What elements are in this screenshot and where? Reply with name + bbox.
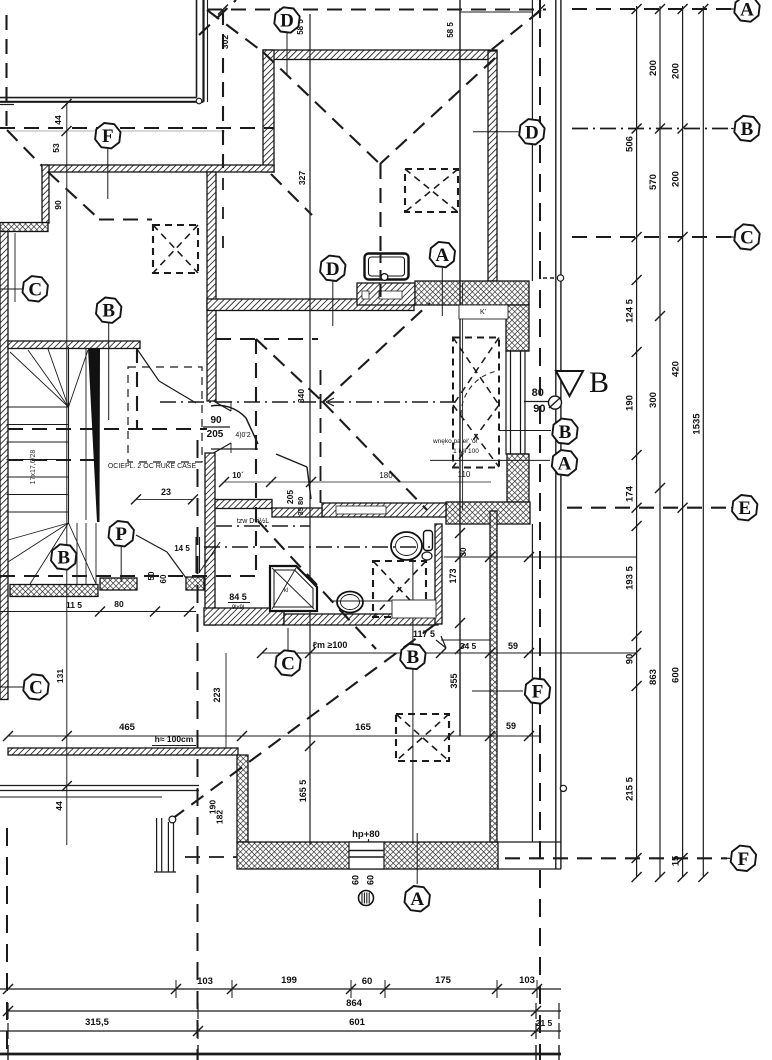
bottom window line 2	[349, 856, 384, 858]
svg-text:302: 302	[220, 35, 230, 49]
roof hip central nw	[256, 339, 323, 402]
roof diag top corner	[199, 0, 236, 35]
label F room	[525, 678, 550, 703]
svg-text:B: B	[102, 301, 115, 322]
roof hip bottom long	[172, 620, 441, 819]
svg-text:F: F	[532, 681, 544, 702]
property line a	[555, 0, 557, 869]
door bathroom frame	[195, 537, 197, 573]
door jamb splay top	[214, 401, 232, 411]
grid row F left stub	[185, 856, 237, 858]
window right sill bottom	[506, 453, 529, 455]
wall corner crosshatch	[0, 223, 48, 232]
svg-text:215 5: 215 5	[625, 776, 636, 800]
svg-text:35 80: 35 80	[296, 497, 305, 516]
railing post circle	[169, 816, 176, 823]
door bathroom leaf	[200, 542, 221, 572]
grid label F right	[731, 846, 756, 871]
wall crosshatch right upper	[506, 305, 529, 351]
svg-text:600: 600	[671, 667, 682, 683]
leader F room	[472, 690, 523, 692]
leader C bath	[287, 628, 289, 650]
bottom window opening	[349, 842, 384, 869]
svg-text:180: 180	[379, 471, 393, 480]
door jamb splay bottom	[214, 443, 232, 453]
roof hip top-left	[7, 130, 42, 166]
roof ridge over sink	[380, 253, 382, 297]
railing line 1	[0, 785, 199, 787]
chimney bathroom	[373, 561, 426, 617]
roof eave left vertical	[5, 15, 7, 131]
svg-text:A: A	[435, 245, 449, 266]
terrace corner circle	[196, 98, 202, 104]
svg-text:1 łyłł 100: 1 łyłł 100	[453, 448, 479, 455]
svg-text:59: 59	[506, 721, 516, 731]
svg-text:Kʹ: Kʹ	[480, 308, 486, 316]
tick x310 y746	[305, 741, 315, 751]
grid vertical x540	[539, 0, 541, 1060]
tick d1 b	[535, 5, 545, 15]
dim line y557	[444, 556, 636, 558]
wall sink section	[357, 283, 415, 305]
wall right narrow crosshatch	[490, 511, 497, 842]
svg-text:90: 90	[210, 415, 222, 426]
svg-text:506: 506	[625, 136, 636, 152]
svg-text:ℓm ≥100: ℓm ≥100	[313, 640, 348, 650]
reference line x460	[459, 0, 461, 736]
wall crosshatch right lower	[507, 454, 529, 502]
label C left upper	[23, 276, 48, 301]
corridor jamb	[276, 454, 307, 467]
svg-text:B: B	[559, 422, 572, 443]
railing line 2	[0, 790, 199, 792]
svg-text:44: 44	[53, 115, 63, 125]
svg-text:4)0ʹ2: 4)0ʹ2	[235, 431, 250, 439]
svg-text:A: A	[558, 453, 572, 474]
svg-text:D: D	[525, 122, 539, 143]
svg-text:182: 182	[214, 810, 224, 824]
roof eave y429	[8, 428, 207, 430]
wall terrace band	[8, 748, 238, 755]
label B bath	[400, 644, 425, 669]
sink wall notch 2	[379, 291, 402, 299]
svg-text:315,5: 315,5	[85, 1017, 109, 1028]
svg-text:601: 601	[349, 1017, 366, 1028]
svg-text:1535: 1535	[691, 413, 702, 435]
wall crosshatch top right	[415, 281, 529, 305]
label F left	[95, 123, 120, 148]
grid label A right	[734, 0, 759, 22]
roof hip central ne	[323, 303, 430, 402]
svg-text:C: C	[281, 653, 295, 674]
reference line x66	[66, 104, 68, 845]
svg-text:B: B	[741, 119, 754, 140]
chimney bottom room	[396, 714, 449, 761]
label C left lower	[23, 674, 48, 699]
svg-text:B: B	[57, 547, 70, 568]
svg-text:200: 200	[648, 60, 659, 76]
line beside terrace	[207, 0, 209, 102]
svg-text:58 5: 58 5	[446, 22, 455, 38]
dimension line V4	[702, 6, 704, 877]
leader D right	[473, 131, 519, 133]
svg-text:B: B	[407, 647, 420, 668]
svg-text:hp+80: hp+80	[352, 829, 380, 840]
roof hip from wall corner	[271, 174, 312, 215]
svg-text:200: 200	[671, 171, 682, 187]
roof hip bathroom	[258, 521, 376, 649]
svg-text:14 5: 14 5	[174, 544, 190, 553]
svg-text:wnęko pa ełʹ ʹoł: wnęko pa ełʹ ʹoł	[432, 437, 478, 445]
kitchen sink	[365, 254, 409, 280]
inner face line left	[14, 233, 16, 302]
stair edge line 2	[85, 348, 87, 520]
svg-text:kl: kl	[284, 588, 288, 594]
svg-text:199: 199	[281, 975, 297, 986]
door arc right room	[461, 371, 497, 415]
svg-text:175: 175	[435, 975, 452, 986]
svg-text:59: 59	[508, 641, 518, 651]
wall stair top	[8, 341, 140, 349]
bottom chain line 2	[8, 1010, 561, 1012]
svg-text:C: C	[28, 279, 42, 300]
svg-text:F: F	[738, 849, 750, 870]
roof eave top	[207, 8, 546, 10]
svg-text:84 5: 84 5	[229, 592, 247, 602]
svg-text:B: B	[589, 366, 609, 399]
chimney upper room	[405, 169, 458, 212]
duct shaft right room	[453, 338, 499, 468]
svg-text:A: A	[740, 0, 754, 20]
window right frame b	[521, 351, 526, 454]
top connector line	[460, 11, 532, 13]
grid label B right	[734, 116, 759, 141]
roof hip upper room right	[380, 58, 495, 164]
roof hip top d7	[490, 10, 541, 51]
door swing arc 90-205	[211, 405, 246, 418]
dim line y653	[262, 652, 636, 654]
svg-text:131: 131	[55, 669, 65, 683]
dim stub y640	[441, 639, 490, 641]
terrace outer stub	[0, 104, 14, 106]
roof dash to chimney	[99, 218, 152, 220]
railing bottom	[154, 871, 176, 873]
grid label C right	[734, 224, 759, 249]
svg-text:465: 465	[119, 722, 136, 733]
reference line x310	[309, 14, 311, 845]
label B right wall	[552, 419, 577, 444]
dim line y482	[224, 481, 491, 483]
property line b	[560, 0, 562, 869]
bottom right edge line top	[497, 841, 561, 843]
wall bathroom left	[205, 453, 215, 625]
tick x460 y623	[455, 618, 465, 628]
chimney left room	[153, 225, 198, 273]
svg-text:60: 60	[362, 976, 373, 987]
grid vertical x7 lower	[6, 828, 8, 1060]
bath niche	[392, 600, 436, 618]
label D top	[274, 7, 299, 32]
grid row A	[572, 8, 731, 10]
shower tray	[270, 566, 317, 611]
tick d1 a	[218, 5, 228, 15]
svg-text:300: 300	[648, 392, 659, 408]
dim line 23	[136, 498, 193, 500]
svg-text:C: C	[740, 227, 754, 248]
svg-text:17x17,6/28: 17x17,6/28	[30, 450, 37, 485]
wall left vertical	[42, 165, 49, 223]
line 80-90	[524, 401, 552, 403]
tick x67 y736	[62, 731, 72, 741]
grid vertical x197	[197, 440, 199, 1060]
reference line x226	[225, 653, 227, 748]
svg-text:F: F	[102, 126, 114, 147]
stair cut wedge	[88, 348, 100, 522]
small circle right	[560, 785, 566, 791]
roof ridge upper room	[379, 164, 381, 297]
bathroom top wall notch	[336, 506, 386, 514]
svg-text:124 5: 124 5	[625, 298, 636, 322]
roof eave left horizontal	[0, 127, 274, 129]
svg-text:60: 60	[351, 875, 361, 885]
grid row F	[505, 857, 727, 859]
svg-text:205: 205	[285, 490, 295, 504]
tick x66 a	[62, 126, 72, 136]
bottom chain line 1	[0, 988, 561, 990]
svg-text:355: 355	[449, 673, 459, 688]
svg-text:190: 190	[625, 395, 636, 411]
svg-text:21 5: 21 5	[536, 1018, 553, 1028]
step rect K	[459, 305, 508, 319]
reference line x462	[462, 283, 464, 510]
railing line 3	[0, 796, 162, 798]
roof eave vertical x137	[136, 348, 138, 429]
wall upper room right	[488, 51, 497, 281]
svg-text:11 5: 11 5	[66, 600, 82, 610]
svg-text:80: 80	[532, 387, 544, 399]
leader B section	[499, 430, 551, 432]
label B left upper	[96, 298, 121, 323]
dimension line V2	[659, 6, 661, 877]
bottom right edge line bottom	[497, 868, 561, 870]
roof ridge central south	[320, 370, 322, 503]
wall upper room left	[263, 50, 274, 172]
svg-text:864: 864	[346, 998, 363, 1009]
leader A mid	[441, 268, 443, 316]
svg-text:A: A	[410, 889, 424, 910]
svg-text:23: 23	[161, 487, 171, 497]
label C bath	[275, 650, 300, 675]
wall left horizontal	[42, 165, 274, 172]
washbasin	[337, 592, 363, 613]
roof hip upper room left	[263, 52, 380, 164]
roof ridge central dashdot	[160, 401, 455, 403]
leader A bottom	[416, 833, 418, 884]
stair opening dashed rect	[128, 367, 202, 462]
wall stair bottom crosshatch 1	[10, 585, 98, 597]
section triangle B	[556, 371, 583, 396]
label A bottom	[405, 886, 430, 911]
dimension line V1	[636, 6, 638, 877]
leader P	[120, 547, 122, 582]
label D mid	[320, 256, 345, 281]
svg-text:60: 60	[159, 574, 168, 583]
svg-text:h≈ 100cm: h≈ 100cm	[155, 734, 194, 744]
window right sill top	[506, 350, 529, 352]
svg-text:103: 103	[519, 975, 535, 986]
marker dash-circle right	[543, 277, 556, 279]
svg-text:110: 110	[458, 470, 471, 479]
svg-text:174: 174	[625, 485, 636, 502]
svg-text:205: 205	[207, 429, 224, 440]
wall crosshatch bottom band right room	[446, 502, 530, 524]
svg-text:9lx9l: 9lx9l	[232, 605, 244, 611]
marker circle 11	[359, 891, 374, 906]
svg-text:tzw Dvi½L: tzw Dvi½L	[237, 517, 269, 525]
leader A section	[430, 459, 550, 461]
svg-text:50: 50	[147, 571, 156, 580]
stair edge line	[68, 347, 70, 523]
dimension line V3	[682, 6, 684, 877]
label P	[109, 521, 134, 546]
leader B bath	[412, 669, 414, 843]
svg-text:E: E	[738, 498, 751, 519]
right face line upper	[531, 0, 533, 281]
wall bathroom bottom left	[204, 608, 284, 625]
tick x460 y648	[455, 644, 465, 654]
svg-text:340: 340	[296, 389, 306, 403]
roof eave y460	[8, 459, 98, 461]
svg-text:420: 420	[671, 361, 682, 377]
svg-text:200: 200	[671, 63, 682, 79]
toilet axis	[204, 546, 430, 548]
right face line lower	[531, 524, 533, 842]
label D right	[519, 119, 544, 144]
svg-text:173: 173	[448, 568, 458, 583]
svg-text:D: D	[280, 10, 294, 31]
svg-text:D: D	[326, 259, 340, 280]
terrace bottom outer line	[0, 101, 204, 103]
roof hip top d6	[207, 10, 263, 52]
svg-text:80: 80	[114, 599, 124, 609]
svg-text:90: 90	[533, 403, 545, 415]
grey line through F	[10, 130, 225, 132]
wall stair bottom crosshatch 3	[186, 577, 204, 590]
roof eave vertical x223	[222, 10, 224, 168]
grid row E	[567, 507, 731, 509]
terrace right inner line	[196, 0, 198, 98]
roof hip inner left	[48, 172, 99, 219]
svg-text:10´: 10´	[232, 471, 244, 480]
tick x66 b	[62, 99, 72, 109]
wall bathroom top-left A	[210, 500, 272, 509]
tick x460 y533	[455, 528, 465, 538]
tick x67 y786	[62, 781, 72, 791]
leader C left upper	[0, 288, 22, 290]
bottom window line 1	[349, 850, 384, 852]
wall bathroom top-left B	[272, 508, 322, 517]
svg-text:165: 165	[355, 722, 372, 733]
leader D top	[286, 33, 288, 76]
svg-text:223: 223	[212, 687, 222, 702]
svg-text:30: 30	[459, 547, 468, 556]
terrace right outer line	[202, 0, 204, 102]
wall mid horizontal band	[207, 299, 414, 311]
wall bottom band crosshatch	[237, 842, 498, 869]
sink wall notch 1	[362, 291, 369, 299]
svg-text:570: 570	[648, 174, 659, 190]
door leaf P	[136, 535, 167, 552]
leader D mid	[332, 281, 334, 326]
leader B left upper	[108, 323, 110, 420]
label B stairs	[51, 544, 76, 569]
svg-text:C: C	[29, 677, 43, 698]
stair winders bottom	[8, 523, 69, 540]
wall left exterior	[0, 232, 8, 700]
svg-text:44: 44	[54, 801, 64, 811]
bottom chain line 4	[0, 1053, 561, 1056]
diameter symbol	[549, 396, 562, 409]
svg-text:193 5: 193 5	[625, 565, 636, 589]
wall stair bottom crosshatch 2	[100, 578, 137, 590]
wall upper room top	[263, 50, 497, 60]
grid row C	[572, 236, 731, 238]
svg-text:53: 53	[51, 143, 61, 153]
svg-text:327: 327	[297, 171, 307, 185]
dim line y736	[8, 735, 540, 737]
railing verticals	[156, 818, 158, 872]
wall bathroom bottom right	[284, 614, 438, 625]
wall bathroom right	[435, 524, 442, 624]
grid label E right	[732, 495, 757, 520]
svg-text:P: P	[115, 524, 127, 545]
wall bottom-left vertical crosshatch	[237, 755, 248, 842]
svg-text:103: 103	[197, 976, 213, 987]
bottom chain line 3	[0, 1030, 561, 1032]
stair winders top	[10, 352, 69, 407]
svg-text:60: 60	[365, 875, 375, 885]
svg-text:90: 90	[53, 200, 63, 210]
toilet	[391, 532, 422, 560]
svg-text:117 5: 117 5	[413, 629, 435, 639]
svg-text:165 5: 165 5	[298, 780, 308, 803]
wall bathroom top	[322, 503, 446, 517]
corridor axis	[216, 525, 310, 527]
stair treads	[7, 406, 69, 408]
door leaf left room	[137, 349, 159, 381]
terrace bottom inner line	[0, 97, 197, 99]
roof hip central se	[323, 402, 427, 510]
label A mid	[430, 242, 455, 267]
stair vertical treads	[76, 523, 78, 584]
label A right wall	[552, 450, 577, 475]
wall mid-left vertical upper	[207, 172, 216, 401]
svg-text:OCIEPL. 2 OC RUKE CASE: OCIEPL. 2 OC RUKE CASE	[108, 463, 197, 470]
roof eave y576	[0, 575, 260, 577]
svg-text:15: 15	[671, 855, 682, 866]
roof eave vertical x256	[255, 339, 257, 577]
window right frame a	[506, 351, 511, 454]
roof eave central horizontal	[216, 338, 318, 340]
svg-text:863: 863	[648, 669, 659, 685]
leader F left	[107, 149, 109, 199]
grid row B	[572, 128, 731, 130]
leader C left lower	[0, 686, 23, 688]
dim line y609	[0, 611, 196, 613]
bath counter line	[330, 600, 392, 602]
